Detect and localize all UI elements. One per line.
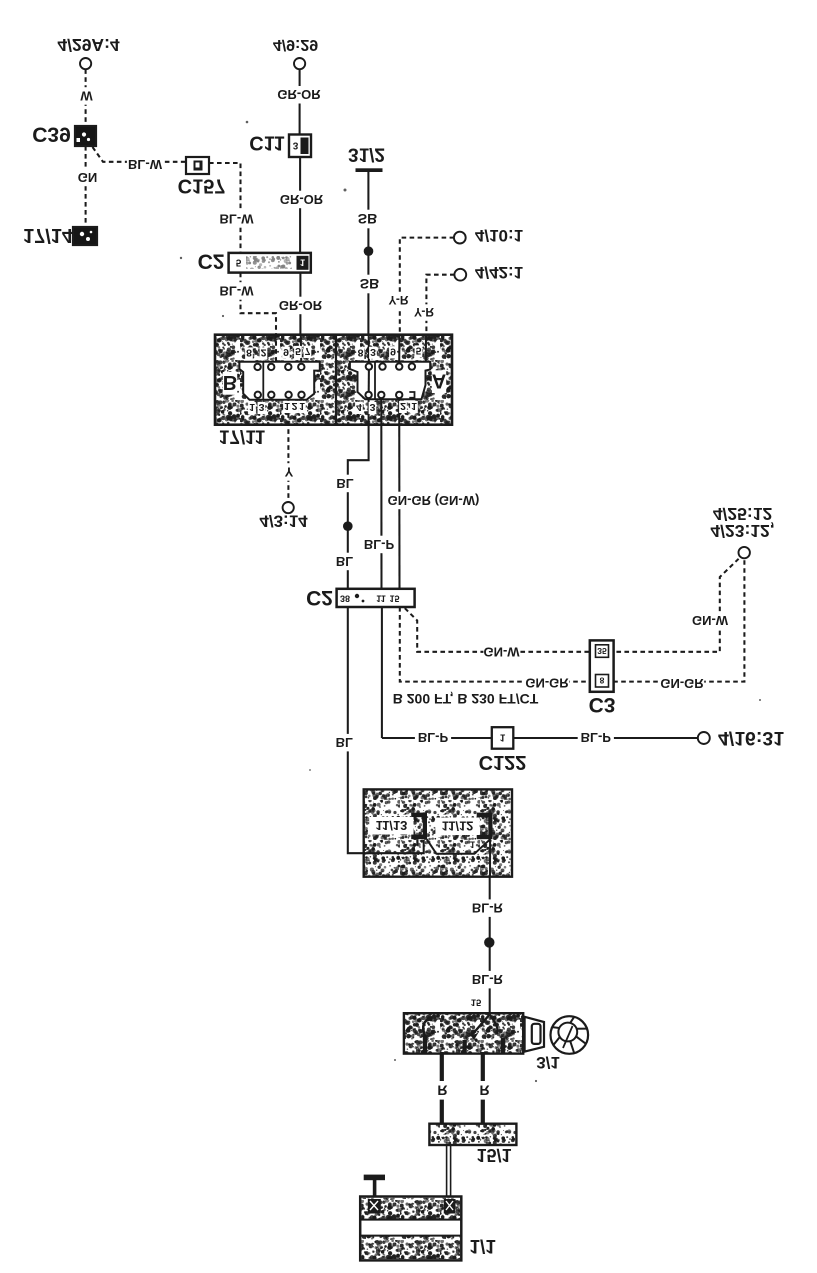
svg-text:GR-OR: GR-OR: [277, 87, 321, 102]
svg-text:8: 8: [246, 347, 252, 359]
svg-text:R: R: [437, 1082, 447, 1098]
svg-text:4: 4: [356, 401, 362, 413]
svg-text:W: W: [80, 88, 93, 103]
svg-text:4/16:31: 4/16:31: [718, 727, 784, 749]
svg-text:4/23:12,: 4/23:12,: [710, 521, 774, 541]
svg-text:GN: GN: [78, 170, 98, 185]
svg-text:31/2: 31/2: [348, 144, 385, 165]
svg-text:5: 5: [236, 256, 242, 267]
svg-text:8: 8: [358, 347, 364, 359]
svg-text:1/1: 1/1: [469, 1235, 496, 1256]
svg-text:15/1: 15/1: [476, 1145, 511, 1165]
svg-text:B: B: [223, 371, 237, 393]
svg-text:1: 1: [300, 258, 305, 268]
svg-text:GR-OR: GR-OR: [279, 298, 323, 313]
svg-text:9: 9: [390, 346, 396, 358]
svg-text:4/29A:4: 4/29A:4: [57, 35, 120, 55]
svg-text:GR-OR: GR-OR: [280, 192, 324, 207]
svg-text:BL: BL: [336, 554, 353, 569]
svg-text:BL-P: BL-P: [581, 730, 612, 745]
svg-text:BL-R: BL-R: [472, 901, 504, 916]
svg-text:Y-R: Y-R: [388, 293, 408, 307]
svg-text:2: 2: [261, 347, 267, 359]
svg-text:17/14: 17/14: [23, 224, 74, 246]
svg-text:C157: C157: [178, 174, 226, 196]
svg-text:BL: BL: [336, 476, 353, 491]
svg-text:7: 7: [305, 345, 311, 357]
svg-text:1: 1: [411, 842, 416, 852]
svg-text:9: 9: [283, 346, 289, 358]
svg-text:5: 5: [416, 345, 422, 357]
svg-text:1: 1: [500, 732, 506, 743]
svg-text:38: 38: [340, 593, 350, 603]
svg-text:SB: SB: [358, 211, 377, 227]
svg-text:2: 2: [292, 400, 298, 412]
svg-text:R: R: [480, 1082, 490, 1098]
svg-text:5: 5: [295, 345, 301, 357]
svg-text:1: 1: [249, 401, 255, 413]
svg-text:C122: C122: [479, 751, 527, 773]
svg-text:BL: BL: [336, 735, 353, 750]
svg-text:35: 35: [597, 646, 607, 656]
svg-text:GN-GR (GN-W): GN-GR (GN-W): [388, 493, 480, 508]
svg-text:BL-W: BL-W: [128, 157, 163, 172]
svg-text:3: 3: [370, 346, 376, 358]
svg-text:4/3:14: 4/3:14: [259, 512, 308, 531]
svg-text:BL-W: BL-W: [220, 211, 255, 226]
svg-text:4/10:1: 4/10:1: [475, 226, 523, 245]
svg-text:17/11: 17/11: [219, 426, 266, 447]
svg-text:1: 1: [299, 400, 305, 412]
svg-text:BL-P: BL-P: [418, 730, 449, 745]
svg-text:C3: C3: [589, 693, 616, 716]
svg-text:4/9:29: 4/9:29: [273, 36, 318, 53]
svg-text:C2: C2: [306, 586, 333, 609]
svg-text:BL-R: BL-R: [472, 972, 504, 987]
svg-text:3: 3: [370, 401, 376, 413]
svg-text:B 200 FT, B 230 FT/CT: B 200 FT, B 230 FT/CT: [393, 691, 539, 707]
svg-text:1: 1: [411, 400, 417, 412]
svg-text:C2: C2: [198, 249, 225, 272]
svg-text:GN-W: GN-W: [692, 613, 729, 628]
svg-text:11/13: 11/13: [375, 818, 407, 833]
svg-text:GN-W: GN-W: [483, 644, 520, 659]
svg-text:8: 8: [600, 676, 605, 686]
svg-text:15: 15: [471, 997, 482, 1008]
svg-text:BL-W: BL-W: [220, 283, 255, 298]
svg-text:GN-GR: GN-GR: [525, 676, 569, 691]
svg-text:Y: Y: [285, 464, 294, 479]
svg-text:3/1: 3/1: [536, 1053, 560, 1072]
svg-text:1: 1: [470, 839, 475, 849]
svg-text:A: A: [432, 370, 446, 392]
svg-text:GN-GR: GN-GR: [660, 676, 704, 691]
svg-text:Y-R: Y-R: [414, 305, 434, 319]
svg-text:3: 3: [293, 139, 299, 150]
svg-text:15: 15: [389, 593, 399, 603]
svg-text:C11: C11: [249, 131, 285, 153]
svg-text:SB: SB: [360, 276, 379, 292]
svg-text:BL-P: BL-P: [364, 537, 395, 552]
svg-text:2: 2: [400, 400, 406, 412]
svg-text:1: 1: [284, 400, 290, 412]
svg-text:11/12: 11/12: [442, 819, 474, 834]
svg-text:11: 11: [376, 593, 386, 603]
svg-text:3: 3: [259, 401, 265, 413]
svg-text:4/42:1: 4/42:1: [475, 263, 523, 282]
svg-text:C39: C39: [32, 122, 71, 145]
